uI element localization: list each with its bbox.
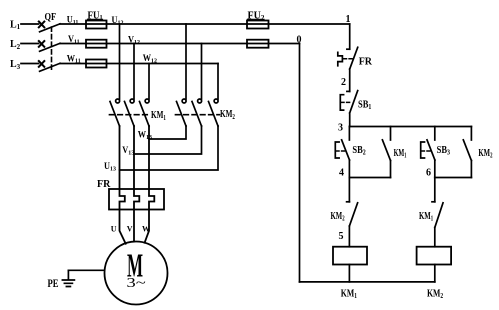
breaker QF pole 1 X mark <box>39 22 45 28</box>
wire KM2 pole2 to V13 <box>134 126 202 154</box>
svg-text:U: U <box>111 225 117 234</box>
wire KM2 coil down <box>434 265 436 282</box>
fuse FU2 element 1 <box>247 21 269 29</box>
svg-text:KM1: KM1 <box>341 287 357 300</box>
thermal contact FR linkage dashed <box>344 58 353 60</box>
contact KM2 aux blade <box>463 140 471 161</box>
button SB2 blade <box>342 140 350 160</box>
svg-text:U12: U12 <box>112 15 124 27</box>
contact KM1 aux top stub <box>390 127 392 141</box>
wire SB2 down <box>348 160 350 178</box>
button SB2 top stub <box>348 127 350 141</box>
coil KM2 <box>417 247 452 265</box>
wire L1 in <box>21 23 39 25</box>
fuse FU1 element 2 <box>86 40 107 48</box>
fuse FU1 element 3 <box>86 60 107 68</box>
svg-text:V: V <box>127 225 133 234</box>
svg-text:6: 6 <box>426 168 431 179</box>
svg-text:5: 5 <box>339 231 344 242</box>
contact KM1 interlock seat tick <box>432 201 435 203</box>
wire KM1 pole2 drop <box>133 44 135 100</box>
fuse FU1 element 1 <box>86 21 107 29</box>
wire SB3 down <box>434 160 436 178</box>
wire PE to motor <box>68 269 104 271</box>
contactor KM1 pole1 blade <box>110 102 120 127</box>
contactor KM1 pole3 contact arc <box>145 99 149 103</box>
breaker QF pole 1 blade <box>40 24 60 32</box>
svg-text:SB1: SB1 <box>358 100 371 111</box>
svg-text:FR: FR <box>359 56 373 67</box>
breaker QF pole 2 blade <box>40 43 60 51</box>
fuse FU2 element 2 <box>247 40 269 48</box>
svg-text:4: 4 <box>339 168 344 179</box>
contactor KM2 pole2 contact arc <box>198 99 202 103</box>
svg-text:U13: U13 <box>104 161 116 173</box>
wire KM2 pole3 drop <box>217 64 219 100</box>
coil KM1 <box>333 247 367 265</box>
fuse FU1 label underline <box>88 18 103 20</box>
svg-text:W11: W11 <box>67 53 81 65</box>
contactor KM2 pole2 blade <box>192 102 202 127</box>
wire KM2 pole3 to U13 <box>120 126 219 170</box>
svg-text:KM1: KM1 <box>151 109 166 122</box>
svg-text:V13: V13 <box>122 145 134 157</box>
wire KM2 pole1 drop <box>185 24 187 99</box>
contactor KM2 pole1 blade <box>177 102 187 127</box>
contactor KM1 pole2 blade <box>125 102 135 127</box>
svg-text:W12: W12 <box>143 53 157 65</box>
breaker QF linkage dashed <box>51 27 53 71</box>
wire KM2 aux down <box>470 161 472 178</box>
svg-text:SB3: SB3 <box>437 145 451 156</box>
contactor KM2 pole1 contact arc <box>182 99 186 103</box>
button SB3 top stub <box>434 127 436 141</box>
contact KM1 aux blade <box>382 140 390 161</box>
svg-text:KM1: KM1 <box>419 209 433 222</box>
svg-text:QF: QF <box>45 11 57 22</box>
svg-text:3: 3 <box>338 123 343 134</box>
wire rail node 6 <box>435 177 472 179</box>
contactor KM2 linkage dashed <box>176 114 220 116</box>
thermal relay FR heater 1 with wire <box>120 126 126 244</box>
wire KM1 pole1 drop <box>119 24 121 99</box>
thermal contact FR actuator <box>338 52 343 66</box>
svg-text:PE: PE <box>48 278 59 291</box>
svg-text:V11: V11 <box>68 34 80 46</box>
svg-text:SB2: SB2 <box>352 145 365 156</box>
contactor KM2 pole3 blade <box>209 102 219 127</box>
contactor KM2 pole3 contact arc <box>214 99 218 103</box>
wire 0 down <box>299 44 301 282</box>
wire row3 W bus <box>60 63 218 65</box>
button SB1 actuator bracket <box>340 95 343 110</box>
motor M circle <box>105 242 168 305</box>
thermal contact FR blade <box>350 47 358 69</box>
contact KM1 interlock blade <box>435 203 443 228</box>
contactor KM1 pole1 contact arc <box>116 99 120 103</box>
thermal relay FR box <box>109 189 164 210</box>
button SB2 actuator bracket <box>335 142 339 158</box>
svg-text:L1: L1 <box>10 19 21 31</box>
button SB3 actuator bracket <box>421 142 425 158</box>
wire row2 V bus <box>60 43 300 45</box>
wire KM2 interlock to coil <box>348 226 350 247</box>
wire L2 in <box>21 43 39 45</box>
wire KM1 coil down <box>348 265 350 282</box>
wire 1 down <box>349 24 351 49</box>
button SB1 seat tick <box>347 90 350 92</box>
svg-text:KM2: KM2 <box>331 209 345 222</box>
breaker QF pole 3 blade <box>40 63 60 71</box>
button SB2 linkage dashed <box>336 150 346 152</box>
wire KM1 pole3 drop <box>148 64 150 100</box>
wire rail node 3 <box>349 126 471 128</box>
wire KM2 pole1 to W13 <box>149 126 186 139</box>
wire bottom rail <box>300 281 435 283</box>
button SB3 blade <box>427 140 435 160</box>
svg-text:U11: U11 <box>67 14 79 26</box>
wire row1 U bus <box>60 23 350 25</box>
wire rail node 4 <box>349 177 390 179</box>
wire KM1 aux down <box>390 161 392 178</box>
contact KM2 interlock seat tick <box>347 201 350 203</box>
svg-text:2: 2 <box>341 77 346 88</box>
svg-text:L2: L2 <box>10 39 21 51</box>
thermal contact FR seat tick <box>347 48 350 50</box>
breaker QF pole 2 X mark <box>39 41 45 47</box>
contactor KM1 pole2 contact arc <box>130 99 134 103</box>
button SB3 linkage dashed <box>421 150 431 152</box>
contact KM1 interlock top stub <box>434 178 436 202</box>
svg-text:KM2: KM2 <box>220 108 235 121</box>
breaker QF pole 3 X mark <box>39 61 45 67</box>
svg-text:3~: 3~ <box>127 274 146 290</box>
contact KM2 interlock top stub <box>348 178 350 202</box>
button SB1 blade <box>350 91 358 113</box>
thermal relay FR heater 2 with wire <box>134 126 139 242</box>
thermal relay FR heater 3 with wire <box>145 126 155 243</box>
contact KM2 interlock blade <box>349 203 357 226</box>
contactor KM1 linkage dashed <box>110 114 151 116</box>
fuse FU2 label underline <box>248 18 265 20</box>
svg-text:KM2: KM2 <box>427 287 443 300</box>
wire KM2 pole2 drop <box>201 44 203 100</box>
svg-text:L3: L3 <box>10 59 21 71</box>
wire L3 in <box>21 63 39 65</box>
svg-text:KM1: KM1 <box>394 147 407 159</box>
wire KM1 interlock to coil <box>434 228 436 247</box>
svg-text:KM2: KM2 <box>478 146 492 159</box>
contact KM2 aux top stub <box>470 127 472 141</box>
svg-text:W: W <box>142 225 150 234</box>
wire SB1 to rail 3 <box>349 113 351 127</box>
button SB1 linkage dashed <box>341 101 352 103</box>
wire FR to SB1 <box>349 69 351 91</box>
ground symbol <box>62 270 74 286</box>
contactor KM1 pole3 blade <box>140 102 150 127</box>
